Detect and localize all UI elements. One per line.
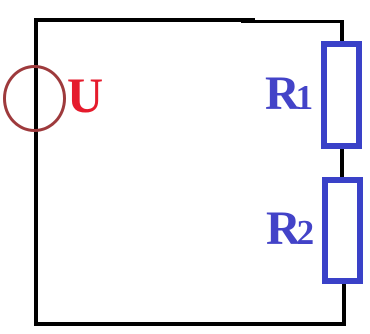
wire: right vertical from top to R1 [340,20,344,45]
wire: top horizontal left segment [34,18,255,22]
wire: top horizontal right segment [241,20,344,24]
voltage source U1 circle [3,65,67,132]
label U [67,70,103,120]
wire: from R2 bottom to bottom rail [342,282,347,326]
wire: left vertical [34,18,38,326]
wire: between R1 and R2 [340,147,344,179]
wire: bottom horizontal [34,322,346,326]
resistor R1 body [321,41,362,149]
label R1 [265,70,313,118]
label R2 [266,205,314,253]
resistor R2 body [322,177,363,284]
